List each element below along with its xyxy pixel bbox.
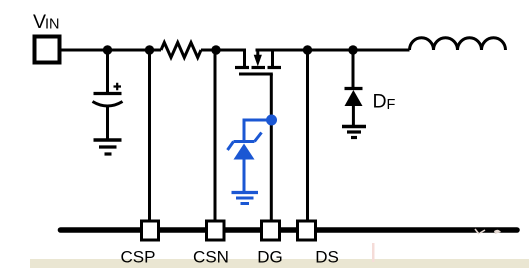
svg-text:DS: DS	[315, 248, 339, 267]
wire CSP sense line	[148, 50, 151, 220]
VIN source box	[35, 37, 60, 63]
wire VIN to MOSFET source	[62, 49, 162, 52]
bus bar (bottom)	[61, 227, 518, 233]
svg-text:IN: IN	[45, 17, 60, 33]
node DF junction	[348, 45, 357, 54]
terminal DG	[262, 221, 280, 240]
diode DF (freewheeling)	[345, 50, 363, 126]
node DS junction	[303, 45, 312, 54]
svg-text:CSP: CSP	[121, 248, 156, 267]
watermark pink streak	[372, 243, 375, 262]
node input cap junction	[103, 45, 112, 54]
svg-text:CSN: CSN	[193, 248, 229, 267]
node CSP junction	[145, 45, 154, 54]
node CSN junction	[211, 45, 220, 54]
terminal CSP	[142, 221, 159, 240]
beige strip bottom	[30, 259, 529, 268]
label DF	[373, 91, 396, 114]
ground (capacitor)	[94, 140, 122, 154]
resistor R1	[161, 43, 201, 58]
capacitor C1 (polarized input cap)	[93, 50, 123, 139]
transistor Q1 (power MOSFET)	[235, 49, 281, 75]
wire gate line to DG	[270, 74, 273, 220]
wire gate clamp (blue)	[244, 120, 271, 140]
wire resistor to MOSFET	[201, 50, 245, 66]
inductor L1	[410, 38, 506, 50]
transistor Q1 body arrow	[254, 55, 262, 67]
svg-text:D: D	[373, 91, 387, 113]
watermark marks on bar	[475, 229, 485, 234]
ground (zener, blue)	[232, 193, 259, 204]
wire CSN sense line	[214, 50, 217, 221]
node gate clamp junction (blue)	[266, 115, 277, 126]
svg-text:DG: DG	[257, 248, 283, 267]
terminal CSN	[207, 221, 225, 240]
wire MOSFET body/drain to inductor	[256, 49, 410, 52]
svg-text:F: F	[387, 97, 396, 113]
ground (DF)	[342, 127, 366, 138]
terminal DS	[298, 221, 316, 240]
wire DS line	[306, 50, 309, 220]
label VIN	[33, 11, 60, 33]
zener diode D1 (blue gate clamp)	[228, 133, 262, 192]
